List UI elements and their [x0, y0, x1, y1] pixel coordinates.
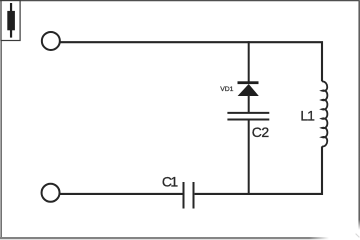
svg-text:C1: C1 — [162, 174, 179, 190]
wire diode to C2 — [248, 95, 250, 112]
wire right vertical lower and bottom right corner — [195, 146, 322, 194]
capacitor C1 — [162, 174, 194, 209]
wire C2 to bottom rail — [248, 120, 250, 194]
wire diode branch top — [248, 41, 250, 81]
svg-text:C2: C2 — [252, 124, 270, 140]
terminal X1 — [42, 32, 60, 50]
wire top rail and right corner — [60, 42, 322, 81]
svg-text:L1: L1 — [300, 107, 315, 123]
svg-text:VD1: VD1 — [220, 86, 233, 93]
capacitor C2 — [227, 113, 269, 140]
terminal X2 — [42, 184, 60, 202]
diode VD1 — [220, 81, 259, 96]
wire bottom rail left — [60, 193, 183, 195]
inductor L1 — [300, 81, 327, 146]
legend symbol box — [1, 1, 20, 41]
